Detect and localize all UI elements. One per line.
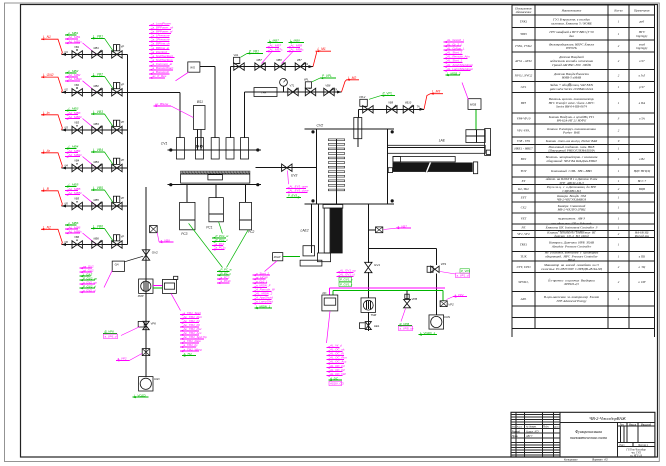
svg-text:CV2: CV2 <box>317 124 324 128</box>
pressure reducer TPA <box>254 88 277 97</box>
end tick TA3 <box>420 108 425 111</box>
row C wire <box>358 109 360 117</box>
pump TMZ <box>361 298 376 313</box>
valve VB3 <box>72 126 82 133</box>
bus green <box>332 290 334 295</box>
end tick TA <box>309 65 314 68</box>
svg-text:Масштаб: Масштаб <box>641 423 652 426</box>
svg-text:GV1: GV1 <box>521 85 527 89</box>
svg-text:WG: WG <box>190 65 196 69</box>
svg-text:Гранзд АМ ВЧС-300 100дБ: Гранзд АМ ВЧС-300 100дБ <box>551 63 591 67</box>
svg-text:GV1: GV1 <box>374 263 380 267</box>
svg-text:N2: N2 <box>65 88 69 92</box>
svg-text:Копировал: Копировал <box>564 457 578 461</box>
svg-text:TA: TA <box>305 62 308 66</box>
svg-text:МВ-2-ЧЕЛГО.07ВЦ: МВ-2-ЧЕЛГО.07ВЦ <box>557 208 586 212</box>
valve MB5 <box>92 202 102 209</box>
title block <box>511 412 655 457</box>
pilot valve VP6 <box>112 241 122 248</box>
svg-text:VP: VP <box>121 83 125 87</box>
wire CV2 to GV1 <box>367 204 369 263</box>
svg-text:Расход-тм: Расход-тм <box>634 234 649 238</box>
svg-text:VP: VP <box>121 120 125 124</box>
svg-text:TPA: TPA <box>261 90 266 94</box>
svg-text:руб: руб <box>639 19 645 23</box>
bottom rail CV1 <box>167 184 261 186</box>
valve MB7 <box>255 63 265 70</box>
svg-text:Разраб.: Разраб. <box>512 430 521 433</box>
svg-text:P_GV1_c: P_GV1_c <box>340 282 353 286</box>
wire VP1 to FAN <box>436 274 438 315</box>
leader GH <box>104 271 112 288</box>
filter GH <box>112 261 124 271</box>
svg-text:VET: VET <box>521 217 527 221</box>
pump PMP <box>139 279 153 293</box>
svg-text:VB2: VB2 <box>74 83 79 87</box>
wire WG1 to CV1 tube3 <box>200 66 215 68</box>
svg-text:в В2: в В2 <box>639 157 645 161</box>
pilot valve VPB <box>406 290 408 299</box>
svg-text:big/турy: big/турy <box>636 46 648 50</box>
svg-text:PC3: PC3 <box>181 232 187 236</box>
svg-text:VP2: VP2 <box>448 303 454 307</box>
pilot valve VP3 <box>112 126 122 133</box>
svg-text:VA1: VA1 <box>234 53 239 57</box>
svg-text:VPL: VPL <box>304 78 309 82</box>
svg-text:VB3: VB3 <box>74 121 79 125</box>
svg-text:PC2: PC2 <box>248 230 254 234</box>
stub VB7 <box>368 229 375 231</box>
svg-text:пневматическая схема: пневматическая схема <box>570 436 607 440</box>
svg-text:BS1: BS1 <box>197 100 203 104</box>
valve MB2 <box>92 89 102 96</box>
svg-text:в 5х5: в 5х5 <box>639 74 646 78</box>
svg-text:VPL2: VPL2 <box>359 95 366 99</box>
svg-text:ВЧ-62А-НГ 21 НУРЕ: ВЧ-62А-НГ 21 НУРЕ <box>557 119 586 123</box>
solenoid VB7 <box>376 227 383 233</box>
svg-text:L_VB5: L_VB5 <box>93 186 103 190</box>
stem PC1 <box>215 185 217 198</box>
svg-text:HE1: HE1 <box>374 324 380 328</box>
gas burner MGB <box>468 99 481 110</box>
svg-text:CV1: CV1 <box>161 142 168 146</box>
svg-text:gate valve Series 10 ЕВАО-0244: gate valve Series 10 ЕВАО-0244 <box>550 87 593 91</box>
pilot valve VP1 <box>112 51 122 58</box>
svg-text:Примечание: Примечание <box>633 8 650 12</box>
valve VB10 <box>403 106 413 113</box>
pipe row 6 wire <box>62 244 128 246</box>
svg-text:VB8: VB8 <box>325 83 330 87</box>
svg-text:L_VB1: L_VB1 <box>93 35 103 39</box>
svg-text:Дата: Дата <box>553 427 561 429</box>
svg-text:N3: N3 <box>65 125 69 129</box>
svg-text:BV2: BV2 <box>521 157 527 161</box>
svg-text:VB9: VB9 <box>388 101 393 105</box>
pilot valve VP4 <box>112 164 122 171</box>
wire branch to VP1 <box>368 248 436 250</box>
svg-text:Листов 1: Листов 1 <box>638 444 648 447</box>
svg-text:VP6: VP6 <box>151 321 157 325</box>
svg-text:дал: дал <box>569 34 574 38</box>
svg-text:HRE1 - HRE7: HRE1 - HRE7 <box>513 147 533 151</box>
svg-text:N1: N1 <box>65 50 69 54</box>
svg-text:Подп.: Подп. <box>543 426 549 429</box>
svg-text:N4: N4 <box>65 163 69 167</box>
svg-text:обозначение: обозначение <box>516 10 532 14</box>
valve VB4 <box>72 164 82 171</box>
controller DC <box>322 295 338 311</box>
svg-text:YHD: YHD <box>520 32 527 36</box>
pipe row 3 wire <box>62 129 128 131</box>
svg-text:VT1: VT1 <box>290 83 295 87</box>
valve HE1 <box>365 322 371 330</box>
svg-text:TUK: TUK <box>520 254 527 258</box>
wire MGB to LAE <box>475 109 477 129</box>
svg-text:a_VP6_cl: a_VP6_cl <box>105 334 118 338</box>
green leaders PC <box>189 223 223 267</box>
solenoid VP2b <box>142 349 150 356</box>
svg-text:Клапанный СЛВ- ЗВС--ВВО: Клапанный СЛВ- ЗВС--ВВО <box>550 168 592 173</box>
svg-text:GH: GH <box>115 262 119 266</box>
pilot valve VP5 <box>112 202 122 209</box>
svg-text:N6: N6 <box>65 240 69 244</box>
svg-text:СЦЕЛВО-ЗЦ: СЦЕЛВО-ЗЦ <box>562 189 581 193</box>
leader MGW <box>265 261 278 272</box>
stem PC2 <box>245 185 247 203</box>
svg-text:MGB: MGB <box>470 103 476 107</box>
valve VB2 <box>72 89 82 96</box>
bus magenta <box>329 288 331 295</box>
svg-text:EYT: EYT <box>520 196 527 200</box>
svg-text:VPB: VPB <box>412 297 418 301</box>
gas unit MGW <box>273 253 283 261</box>
fan FAN2 <box>139 377 153 391</box>
wire MGW to LAE2 <box>283 255 300 257</box>
svg-text:L_VOZD_1: L_VOZD_1 <box>420 331 435 335</box>
svg-text:P_VB1: P_VB1 <box>249 50 259 54</box>
valve GV2 <box>142 250 149 260</box>
leader MGB <box>462 83 469 101</box>
svg-text:изготовл. Ёмкость 5 / NORE: изготовл. Ёмкость 5 / NORE <box>551 20 592 25</box>
svg-text:L_N1: L_N1 <box>43 35 51 39</box>
valve VB7a <box>295 63 305 70</box>
main gas wire <box>145 187 147 377</box>
svg-text:НДУ НГЦ/Ц: НДУ НГЦ/Ц <box>633 169 651 173</box>
wire PMP to DV magenta <box>153 284 162 286</box>
svg-text:VB10: VB10 <box>405 101 412 105</box>
svg-text:MB8: MB8 <box>276 58 282 62</box>
svg-text:VP1: VP1 <box>441 262 447 266</box>
pilot valve VP2 <box>112 89 122 96</box>
svg-text:MB7: MB7 <box>257 58 263 62</box>
leader DC <box>327 311 331 343</box>
svg-text:L_VB2: L_VB2 <box>93 72 103 76</box>
leader WG1 <box>176 72 189 81</box>
wire PMP to DV green <box>153 287 162 289</box>
svg-text:TNK1: TNK1 <box>520 19 528 23</box>
valve VT1 <box>288 88 298 95</box>
stem PC3 <box>186 185 188 203</box>
svg-text:в 5Ц: в 5Ц <box>639 265 646 269</box>
svg-text:Формат А3: Формат А3 <box>592 457 608 461</box>
svg-text:YOV: YOV <box>520 169 527 173</box>
svg-text:Штуцерный РНЕОГЛЕНАЛЕНА: Штуцерный РНЕОГЛЕНАЛЕНА <box>547 148 595 153</box>
finned tube LAE <box>393 163 472 172</box>
wire TMZ to HE1 <box>367 312 369 331</box>
svg-text:ВЦВ: ВЦВ <box>639 187 645 191</box>
valve MB8 <box>275 63 285 70</box>
svg-text:TMZ: TMZ <box>371 313 377 317</box>
svg-text:НР-6: НР-6 <box>567 258 575 262</box>
svg-text:LAE2: LAE2 <box>301 229 309 233</box>
end tick TA2 <box>337 91 342 94</box>
collector wire <box>127 54 129 244</box>
svg-text:L_VB6: L_VB6 <box>93 225 103 229</box>
pipe row 5 wire <box>62 205 128 207</box>
svg-text:Функциональная: Функциональная <box>575 430 602 434</box>
valve VB1 <box>72 51 82 58</box>
svg-text:MB3: MB3 <box>94 122 100 126</box>
svg-text:Absolute Pressure Controller: Absolute Pressure Controller <box>551 245 592 249</box>
svg-text:VB7: VB7 <box>297 58 302 62</box>
valve MB6 <box>92 241 102 248</box>
svg-text:нагреватель АН-3: нагреватель АН-3 <box>558 217 585 221</box>
svg-text:MB2: MB2 <box>94 84 100 88</box>
svg-text:TA: TA <box>417 105 420 109</box>
row A wire <box>229 67 231 138</box>
svg-text:TA: TA <box>334 87 337 91</box>
svg-text:GV2: GV2 <box>152 250 158 254</box>
svg-text:ЧВ-2-ЧжелдорВАЖ: ЧВ-2-ЧжелдорВАЖ <box>589 416 627 421</box>
svg-text:VP: VP <box>121 45 125 49</box>
svg-text:PMP: PMP <box>138 294 144 298</box>
valve MB3 <box>92 126 102 133</box>
cap left LAE <box>388 168 392 173</box>
cylinder PC1 <box>209 198 224 222</box>
wire CV1 to CV2 <box>256 167 317 169</box>
svg-text:MB1: MB1 <box>94 46 100 50</box>
pilot valve VA1 <box>234 63 244 70</box>
header box LAE <box>466 130 485 143</box>
svg-text:VB4: VB4 <box>74 159 79 163</box>
svg-text:VP: VP <box>121 235 125 239</box>
feed tube CV2 <box>354 118 362 139</box>
svg-text:MB5: MB5 <box>94 198 100 202</box>
valve VB8a <box>324 88 334 95</box>
svg-text:Пров.: Пров. <box>512 435 519 438</box>
leader DV <box>171 293 181 310</box>
solenoid VB8b <box>150 226 158 233</box>
pipe row 4 wire <box>62 167 128 169</box>
svg-text:P_VPL: P_VPL <box>322 74 332 78</box>
svg-text:APL: APL <box>520 297 527 301</box>
svg-text:ул. ЧГУ 19: ул. ЧГУ 19 <box>629 455 642 458</box>
svg-text:ГРЕ Advanced Energy: ГРЕ Advanced Energy <box>556 299 587 303</box>
svg-text:Масса: Масса <box>629 423 637 426</box>
pilot valve VP1 <box>431 266 439 272</box>
svg-text:VB6: VB6 <box>74 235 79 239</box>
svg-text:P_GV1_o: P_GV1_o <box>340 277 353 281</box>
svg-text:VP: VP <box>121 158 125 162</box>
cylinder PC2 <box>240 202 252 229</box>
cap right LAE <box>473 162 477 174</box>
svg-text:TRE1: TRE1 <box>520 243 528 247</box>
component table <box>511 5 513 329</box>
pipe row 2 wire <box>62 91 128 93</box>
svg-text:AFS1 - AFS2: AFS1 - AFS2 <box>514 59 532 63</box>
svg-text:a_VP1_cl: a_VP1_cl <box>457 273 470 277</box>
svg-text:PC1: PC1 <box>206 226 212 230</box>
svg-text:L_VB4: L_VB4 <box>93 148 103 152</box>
svg-text:Кол-во: Кол-во <box>613 8 623 12</box>
svg-text:Химич. АГУ: Химич. АГУ <box>525 430 539 433</box>
drive unit DV <box>162 280 176 294</box>
fin stack CV2 <box>328 139 344 141</box>
svg-text:PE: PE <box>521 225 526 229</box>
svg-text:BY3: BY3 <box>521 101 527 105</box>
pilot valve VP6 <box>143 321 149 329</box>
collector trough CV1 <box>181 171 250 183</box>
row B wire <box>244 92 246 138</box>
svg-text:Parker ВАЕ: Parker ВАЕ <box>562 131 580 135</box>
valve MB4 <box>92 164 102 171</box>
wire row2 to CV1 tube1 <box>128 91 180 93</box>
wire GV1 to TMZ <box>367 272 369 298</box>
pilot valve VPL2 <box>363 106 373 113</box>
valve GV1 <box>365 262 372 272</box>
svg-text:VP: VP <box>121 196 125 200</box>
svg-text:LAE: LAE <box>439 138 446 142</box>
fan FAN <box>429 315 444 329</box>
svg-text:ЧВ-2-ЧЕГУЕ.ВАВОЗ: ЧВ-2-ЧЕГУЕ.ВАВОЗ <box>557 198 586 202</box>
svg-text:НУОТЬ: НУОТЬ <box>565 46 577 50</box>
valve VB5 <box>72 202 82 209</box>
svg-text:Лит.: Лит. <box>620 423 625 426</box>
svg-text:L_VB3: L_VB3 <box>93 110 103 114</box>
gas box WG1 <box>188 62 200 72</box>
svg-text:EV3: EV3 <box>291 173 297 177</box>
svg-text:Series ВН-04-ПВ-0674: Series ВН-04-ПВ-0674 <box>556 105 587 109</box>
svg-text:в ПБ: в ПБ <box>639 254 645 258</box>
svg-text:в ПР: в ПР <box>638 280 645 284</box>
solenoid VP2 <box>440 301 447 307</box>
svg-text:VB1: VB1 <box>74 45 79 49</box>
svg-text:L_GN2: L_GN2 <box>43 73 54 77</box>
svg-text:ASDV_CO: ASDV_CO <box>329 381 345 385</box>
cylinder PC3 <box>180 202 195 229</box>
svg-text:ВСС 7: ВСС 7 <box>638 179 647 183</box>
svg-text:VP8-VP10: VP8-VP10 <box>517 117 531 121</box>
svg-text:MGW: MGW <box>274 255 281 259</box>
svg-text:Наименование: Наименование <box>561 8 582 12</box>
svg-text:MB4: MB4 <box>94 160 100 164</box>
svg-text:L_N2: L_N2 <box>43 225 51 229</box>
svg-text:в ПА: в ПА <box>639 101 645 105</box>
svg-text:НМВ-5 иМАВ: НМВ-5 иМАВ <box>561 76 581 80</box>
svg-text:в 5А: в 5А <box>639 117 645 121</box>
svg-text:MB6: MB6 <box>94 236 100 240</box>
end column LAE <box>485 129 491 156</box>
svg-text:АВУ Г: АВУ Г <box>525 435 533 438</box>
pipe row 1 wire <box>62 53 128 55</box>
valve VB6 <box>72 241 82 248</box>
valve MB1 <box>92 51 102 58</box>
svg-text:Лист: Лист <box>516 427 523 429</box>
svg-text:р 97: р 97 <box>638 85 645 89</box>
svg-text:N5: N5 <box>65 201 69 205</box>
pilot valve VPL1 <box>305 88 315 95</box>
svg-text:Клапан стоп-газ вкл/цц Parke: Клапан стоп-газ вкл/цц Parker ВАБ <box>545 139 597 143</box>
svg-text:a_VPB_on: a_VPB_on <box>400 326 414 330</box>
svg-text:VB5: VB5 <box>74 197 79 201</box>
valve VB9 <box>387 106 397 113</box>
svg-text:big/турy: big/турy <box>636 34 648 38</box>
svg-text:ET: ET <box>521 179 526 183</box>
svg-text:в 97: в 97 <box>639 59 645 63</box>
pressure gauge PI1 <box>280 78 288 86</box>
svg-text:V38 - V39: V38 - V39 <box>517 139 530 143</box>
svg-text:CX2: CX2 <box>521 206 527 210</box>
svg-text:общумнанд ЧЕЛ ВА ШАДАА-ЕПШ: общумнанд ЧЕЛ ВА ШАДАА-ЕПШ <box>546 159 597 163</box>
svg-text:FAN: FAN <box>444 315 451 319</box>
svg-text:№ докум.: № докум. <box>526 426 537 429</box>
svg-text:Лист: Лист <box>619 444 625 447</box>
valve EV3 <box>282 164 292 171</box>
svg-text:силостьн ЕСЛЕГООН СЛРЕДВ-4ЕЛ: силостьн ЕСЛЕГООН СЛРЕДВ-4ЕЛА-ЗЦ <box>541 267 602 271</box>
